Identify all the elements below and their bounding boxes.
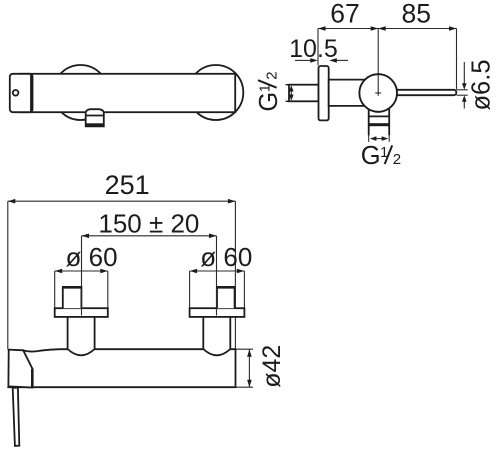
cap thick edge [31,369,34,388]
right mounting flange circle [188,65,243,120]
arrow left of 85 [378,26,386,31]
inlet stub G1/2 [289,85,319,102]
neck body [329,80,379,106]
svg-text:2: 2 [393,151,401,168]
left leg [68,316,95,355]
extension line left body end [7,201,9,349]
centerline right leg [216,236,218,316]
dimension 67/85 line [318,28,457,30]
svg-text:G: G [255,92,283,112]
arrow right of 85 [449,26,457,31]
dimension 10.5 left arrow [295,59,311,61]
outlet width arrows [373,138,385,140]
left end cap [10,74,33,112]
label G1/2 bottom [361,142,401,170]
svg-text:150 ± 20: 150 ± 20 [98,208,199,238]
left end cap wedge [8,350,32,388]
outlet below circle [369,107,390,135]
outlet witness lines [368,135,370,142]
end cap thick edge [30,74,33,112]
svg-text:10.5: 10.5 [289,35,338,63]
left wall flange [55,308,108,317]
right wall flange [190,308,245,317]
svg-text:85: 85 [402,0,431,28]
right eccentric nut [217,288,235,309]
dia42 witness lines [236,348,253,350]
extension line wall/flange left [317,29,319,66]
dimension 150 line [82,235,217,237]
nozzle collar line [86,115,104,117]
centerline into circle and center cross [377,74,379,96]
svg-text:2: 2 [263,71,280,79]
extension line right body end [234,201,236,349]
mixer body bar [20,74,235,112]
dimension dia60 left [55,270,108,272]
screw hole [13,90,19,96]
svg-text:ø42: ø42 [258,345,286,388]
lever rod [378,90,456,95]
centerline over flange left [81,288,83,316]
svg-text:ø6.5: ø6.5 [467,59,495,110]
dimension 10.5 right arrow [337,59,349,61]
dimension 251 line [8,200,236,202]
bottom outlet nozzle [86,109,104,126]
extension line lever end [456,29,458,90]
lever rod down [13,388,20,446]
stub height arrows [290,88,292,98]
svg-text:67: 67 [330,0,359,28]
wall flange plate [319,66,329,120]
lever witness lines [457,89,468,91]
svg-text:ø 60: ø 60 [200,242,252,272]
svg-text:251: 251 [105,170,150,200]
arrow left of 67 [318,26,326,31]
valve body circle [359,74,397,112]
arrow right of 67 [371,26,379,31]
rotated label G1/2 [255,71,283,111]
dimension dia42 [248,349,250,387]
dimension dia60 right [190,270,245,272]
nozzle black band [85,123,104,126]
svg-text:ø 60: ø 60 [66,242,118,272]
body bar [8,349,235,387]
extension line circle center [377,29,379,75]
svg-text:G: G [361,142,381,170]
outlet black band [368,123,390,126]
outlet collar line [369,115,390,117]
left mounting flange circle [53,65,108,120]
right leg [203,316,230,355]
redraw circle over outlet top [359,74,397,112]
dia 6.5 arrows [463,62,465,87]
left eccentric nut [63,288,82,309]
centerline left leg [81,236,83,316]
